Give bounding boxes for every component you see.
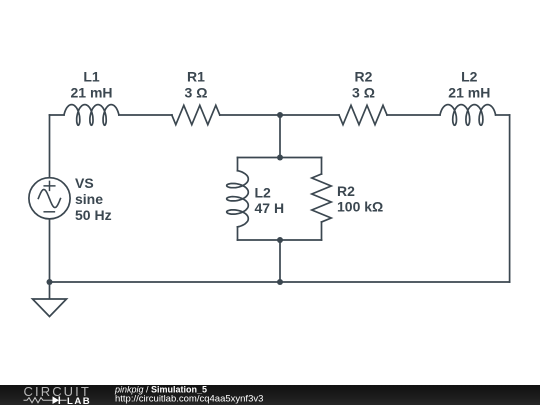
wire parallel bottom rail (238, 239, 322, 241)
wire left vertical lower (49, 219, 51, 282)
inductor L2 47H (227, 171, 249, 227)
wire right branch upper (321, 158, 323, 175)
wire top-left segment (50, 114, 65, 116)
logo diode (48, 396, 67, 404)
inductor L2 21mH (440, 105, 496, 126)
wire right branch lower (321, 222, 323, 240)
svg-text:50 Hz: 50 Hz (75, 207, 112, 223)
svg-text:R2: R2 (355, 69, 373, 85)
wire left vertical upper (49, 115, 51, 178)
svg-text:100 kΩ: 100 kΩ (337, 199, 383, 215)
svg-text:R1: R1 (187, 69, 205, 85)
svg-text:3 Ω: 3 Ω (185, 85, 208, 101)
wire right vertical (509, 115, 511, 282)
svg-text:L2: L2 (255, 185, 272, 201)
logo resistor squiggle (24, 398, 49, 403)
ground (33, 282, 67, 317)
wire L1 to R1 (119, 114, 172, 116)
wire L2 to right corner (496, 114, 510, 116)
svg-text:LAB: LAB (67, 396, 91, 405)
svg-text:L1: L1 (83, 69, 100, 85)
node parallel-top junction dot (277, 155, 283, 161)
node bottom-wire junction dot (277, 279, 283, 285)
wire node A stub (279, 115, 281, 158)
voltage source VS (29, 178, 70, 219)
node A junction dot (277, 112, 283, 118)
resistor R2 100k (312, 174, 331, 222)
svg-text:sine: sine (75, 191, 103, 207)
resistor R2 3ohm (339, 105, 387, 124)
svg-text:http://circuitlab.com/cq4aa5xy: http://circuitlab.com/cq4aa5xynf3v3 (115, 394, 263, 405)
node parallel-bottom junction dot (277, 237, 283, 243)
wire left branch lower (237, 227, 239, 240)
wire parallel to bottom (279, 240, 281, 282)
svg-text:R2: R2 (337, 183, 355, 199)
svg-text:VS: VS (75, 175, 94, 191)
footer bar (0, 385, 540, 405)
wire R2 to L2 (387, 114, 440, 116)
wire left branch upper (237, 158, 239, 171)
wire bottom (50, 281, 510, 283)
svg-text:21 mH: 21 mH (70, 85, 112, 101)
svg-text:3 Ω: 3 Ω (352, 85, 375, 101)
svg-text:L2: L2 (461, 69, 478, 85)
svg-text:21 mH: 21 mH (448, 85, 490, 101)
resistor R1 (172, 105, 220, 124)
wire parallel top rail (238, 157, 322, 159)
node ground junction dot (47, 279, 53, 285)
wire R1 to node A (220, 114, 339, 116)
svg-text:47 H: 47 H (255, 200, 285, 216)
inductor L1 (64, 105, 119, 126)
